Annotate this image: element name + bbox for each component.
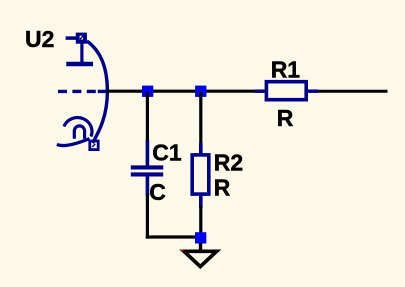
- ground stub wire: [199, 243, 202, 251]
- svg-text:R: R: [277, 105, 294, 131]
- tube U2 anode plate: [66, 44, 93, 65]
- tube U2 cathode curl: [57, 118, 92, 146]
- wire: grid pin to R1: [106, 90, 255, 93]
- label C value: [149, 179, 166, 205]
- junction node A: [142, 86, 153, 97]
- label C1: [152, 139, 182, 165]
- label R value of R2: [214, 175, 231, 201]
- ground origin marker: [181, 250, 183, 252]
- label R1: [271, 56, 301, 82]
- svg-text:R: R: [214, 175, 231, 201]
- wire: C1 down and across to node C: [146, 195, 196, 239]
- svg-text:R1: R1: [271, 56, 301, 82]
- resistor R2: [192, 143, 209, 208]
- label R2: [214, 149, 243, 175]
- wire: R2 down to node C: [199, 206, 202, 233]
- label U2: [25, 26, 54, 52]
- svg-text:R2: R2: [214, 149, 243, 175]
- svg-text:U2: U2: [25, 26, 54, 52]
- wire: R1 to right edge: [318, 90, 387, 93]
- ground: [184, 251, 217, 266]
- svg-text:C: C: [149, 179, 166, 205]
- resistor R1: [255, 82, 318, 100]
- tube U2 anode pin lead: [66, 36, 79, 40]
- wire: node A down to C1: [146, 92, 149, 142]
- wire: node B down to R2: [199, 92, 202, 145]
- junction node C: [195, 232, 206, 243]
- junction node B: [195, 86, 206, 97]
- tube U2 envelope arc: [87, 41, 108, 143]
- tube U2 pin 2 square: [90, 141, 98, 150]
- label R value of R1: [277, 105, 294, 131]
- capacitor C1: [131, 141, 163, 196]
- tube U2 grid (dashed line): [58, 90, 107, 93]
- tube U2 pin 1 square: [76, 33, 87, 44]
- svg-text:C1: C1: [152, 139, 182, 165]
